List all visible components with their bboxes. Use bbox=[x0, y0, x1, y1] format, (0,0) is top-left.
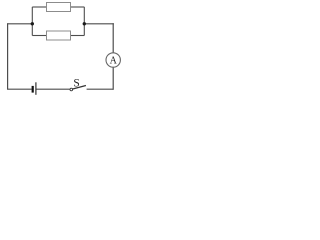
switch S: pivot circle bbox=[70, 88, 73, 91]
wire: bottom from switch to right corner bbox=[87, 88, 114, 90]
wire: bottom from left corner to battery bbox=[7, 88, 32, 90]
wire: left bus vertical joining both resistor branches bbox=[31, 7, 33, 36]
node: left junction dot bbox=[31, 22, 34, 25]
svg-text:A: A bbox=[110, 56, 118, 67]
svg-text:S: S bbox=[73, 77, 79, 89]
wire: right bus vertical joining both resistor branches bbox=[83, 7, 85, 36]
wire: bottom from battery to switch bbox=[36, 88, 70, 90]
background bbox=[0, 0, 122, 99]
wire: left outer vertical bbox=[7, 23, 9, 89]
resistor R1 (top box) bbox=[47, 3, 71, 12]
wire: bottom resistor left stub bbox=[32, 35, 46, 37]
wire: right outer vertical below ammeter bbox=[112, 67, 114, 90]
wire: top resistor right stub bbox=[71, 6, 85, 8]
wire: right top horizontal from right junction to corner bbox=[84, 23, 114, 25]
switch S: lever arm bbox=[73, 86, 86, 90]
wire: bottom resistor right stub bbox=[71, 35, 85, 37]
resistor R2 (bottom box) bbox=[47, 31, 71, 40]
ammeter A: circle body bbox=[106, 53, 120, 67]
wire: left top horizontal from corner to left junction bbox=[8, 23, 33, 25]
battery cell: short thick negative plate bbox=[32, 86, 34, 93]
node: right junction dot bbox=[83, 22, 86, 25]
wire: top resistor left stub bbox=[32, 6, 46, 8]
wire: right outer vertical above ammeter bbox=[112, 23, 114, 53]
battery cell: long thin positive plate bbox=[35, 82, 37, 95]
